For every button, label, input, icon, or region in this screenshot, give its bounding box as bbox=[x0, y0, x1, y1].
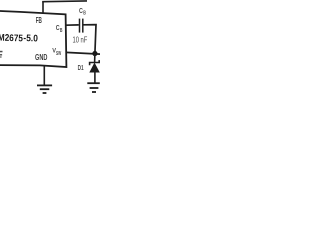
pin label F (cropped ON/OFF) bbox=[0, 51, 3, 53]
svg-text:D1: D1 bbox=[78, 63, 84, 72]
svg-text:SW: SW bbox=[56, 51, 61, 57]
ground symbol under diode D1 bbox=[87, 82, 100, 84]
op-amp U1 regulator box LM2675-5.0 (cropped at left edge) bbox=[0, 11, 66, 67]
wire capacitor right side to SW node bbox=[84, 25, 97, 54]
svg-text:M2675: M2675 bbox=[0, 33, 24, 45]
wire feedback top run to the right bbox=[42, 0, 87, 3]
svg-text:GND: GND bbox=[35, 52, 47, 62]
svg-text:-5.0: -5.0 bbox=[23, 33, 38, 44]
svg-text:B: B bbox=[60, 28, 63, 34]
node SW junction dot bbox=[92, 51, 97, 56]
svg-text:B: B bbox=[83, 11, 86, 17]
capacitor CB plate left bbox=[79, 19, 81, 33]
wire FB pin stub up from box top edge bbox=[42, 2, 44, 14]
wire diode anode stub down bbox=[94, 72, 96, 84]
svg-text:FB: FB bbox=[36, 16, 42, 25]
ground symbol under GND pin bbox=[37, 84, 52, 86]
diode D1 schottky cathode bar with hooks bbox=[90, 60, 100, 65]
background bbox=[0, 0, 100, 95]
wire VSW output run to right edge bbox=[66, 52, 100, 54]
wire SW node down to diode bbox=[94, 54, 96, 63]
diode D1 triangle (anode, pointing up) bbox=[90, 63, 100, 72]
wire GND pin stub down bbox=[43, 66, 45, 85]
capacitor CB plate right bbox=[82, 19, 84, 33]
wire CB pin to boost capacitor bbox=[66, 24, 79, 26]
svg-text:10 nF: 10 nF bbox=[73, 35, 88, 44]
